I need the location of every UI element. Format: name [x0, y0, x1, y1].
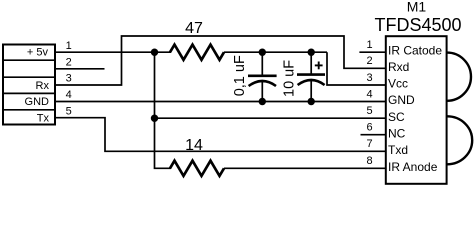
- svg-text:2: 2: [366, 55, 372, 67]
- IC pin 6 stub: [361, 134, 386, 136]
- svg-text:47: 47: [185, 20, 203, 37]
- junction node SC: [151, 115, 158, 122]
- svg-text:1: 1: [366, 39, 372, 51]
- wire SC node to IC pin5: [155, 117, 386, 119]
- IC pin 1 stub: [359, 51, 385, 53]
- svg-text:8: 8: [366, 155, 372, 167]
- svg-text:6: 6: [366, 122, 372, 134]
- svg-text:M1: M1: [407, 0, 427, 15]
- wire +5v drop to R2: [155, 52, 172, 168]
- wire Rx pin3 to IC pin2: [56, 36, 386, 85]
- svg-text:SC: SC: [388, 110, 405, 124]
- svg-text:IR Anode: IR Anode: [388, 160, 438, 174]
- junction node C1 top: [259, 49, 266, 56]
- wire +5v rail R1 to Vcc corner: [224, 51, 327, 53]
- svg-text:TFDS4500: TFDS4500: [374, 15, 461, 35]
- IC U1 body: [386, 36, 447, 184]
- svg-text:3: 3: [66, 73, 72, 85]
- wire GND pin4 to IC pin4: [56, 101, 386, 103]
- svg-text:7: 7: [366, 138, 372, 150]
- svg-text:3: 3: [366, 72, 372, 84]
- capacitor C1 0,1 uF: [248, 52, 277, 101]
- polarity plus sign C2: [315, 62, 323, 70]
- wire Tx pin5 to IC pin7: [56, 118, 386, 152]
- wire R2 to IC pin8: [224, 167, 386, 169]
- svg-text:GND: GND: [388, 93, 415, 107]
- svg-text:5: 5: [366, 105, 372, 117]
- junction node C1 bottom: [259, 98, 266, 105]
- svg-text:IR Catode: IR Catode: [388, 44, 442, 58]
- junction node C2 bottom: [308, 98, 315, 105]
- svg-text:Rxd: Rxd: [388, 60, 409, 74]
- junction node +5v/R drop: [151, 49, 158, 56]
- wire NC pin2 stub: [56, 68, 105, 70]
- resistor R2 14: [170, 161, 224, 176]
- svg-text:Txd: Txd: [388, 143, 408, 157]
- svg-text:Tx: Tx: [37, 113, 50, 125]
- svg-text:4: 4: [66, 89, 72, 101]
- junction node C2 top: [308, 49, 315, 56]
- resistor R1 47: [170, 45, 224, 60]
- connector J1 box: [3, 45, 55, 125]
- IR lens top: [447, 53, 471, 101]
- svg-text:Vcc: Vcc: [388, 77, 408, 91]
- svg-text:14: 14: [185, 137, 203, 154]
- svg-text:10 uF: 10 uF: [282, 60, 298, 97]
- svg-text:4: 4: [366, 88, 372, 100]
- svg-text:NC: NC: [388, 126, 406, 140]
- svg-text:Rx: Rx: [36, 80, 50, 92]
- wire Vcc corner down: [327, 52, 386, 85]
- svg-text:0,1 uF: 0,1 uF: [232, 55, 248, 96]
- svg-text:GND: GND: [25, 96, 50, 108]
- svg-text:1: 1: [66, 40, 72, 52]
- capacitor C2 10 uF: [297, 52, 325, 101]
- IR lens bottom: [447, 116, 472, 164]
- svg-text:+ 5v: + 5v: [27, 46, 49, 58]
- svg-text:2: 2: [66, 56, 72, 68]
- wire +5v pin1 to R1: [56, 51, 171, 53]
- svg-text:5: 5: [66, 105, 72, 117]
